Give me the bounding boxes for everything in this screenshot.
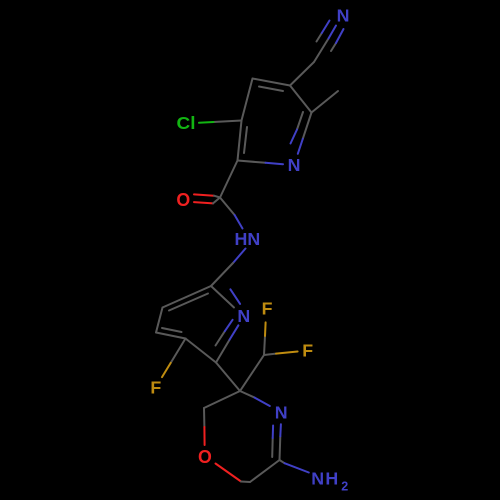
bond CHF2-F (right) (264, 354, 276, 355)
bond C2'=C3' double (ring B) (163, 286, 212, 308)
bond C2ox-C3ox (250, 460, 280, 482)
bond C5ox-N4ox (240, 391, 255, 398)
bond N(amide)-C2' (to ring B) (233, 249, 246, 264)
bond C5-C6 (ring A) (290, 86, 312, 113)
bond C5'-F (aromatic fluorine) (171, 339, 186, 363)
second line of C2'=N1' (230, 289, 240, 304)
nitrile C7#N8 triple bond (314, 39, 329, 63)
bond C6=N1 double (ring A) (303, 113, 312, 139)
bond C3-C4 (ring A) (242, 79, 253, 121)
bond O1ox-C2ox (216, 464, 242, 482)
svg-text:HN: HN (235, 229, 261, 249)
bond C2-N1 (ring A) (238, 161, 266, 163)
bond C2-C(carbonyl) (220, 161, 238, 198)
bond C6'-C5ox (ring B to oxazine quaternary C) (216, 363, 240, 392)
bond C3-Cl (214, 121, 242, 123)
bond C5-C7 (to nitrile carbon) (290, 62, 314, 86)
bond C6-CH3 methyl (312, 91, 339, 113)
svg-text:F: F (150, 377, 161, 397)
bond CHF2-F (upper) (264, 336, 265, 355)
bond C3ox=N4ox amidine double (279, 436, 282, 460)
svg-text:N: N (288, 155, 301, 175)
bond C2'-N1' (ring B) (211, 286, 234, 308)
bond C(carbonyl)-N(amide) (220, 198, 235, 216)
svg-text:N: N (275, 402, 288, 422)
bond C5ox-C6ox (204, 391, 240, 408)
svg-text:N: N (337, 6, 350, 26)
bond C6'=N1' double (ring B) (216, 340, 230, 363)
bond C3'-C4' (ring B) (156, 308, 163, 333)
svg-text:O: O (176, 189, 190, 210)
bond C5ox-CHF2 (240, 355, 264, 391)
bond C4'=C5' double (ring B) (156, 333, 186, 339)
svg-text:O: O (198, 446, 212, 467)
bond C4=C5 double (ring A) (253, 79, 291, 86)
bond C2=C3 double (ring A) (238, 121, 242, 161)
bond C5'-C6' (ring B) (186, 339, 217, 363)
svg-text:N: N (237, 306, 250, 326)
svg-text:F: F (262, 299, 273, 319)
bond C6ox-O1ox (203, 408, 205, 427)
svg-text:Cl: Cl (177, 113, 196, 133)
svg-text:F: F (302, 341, 313, 361)
carbonyl C=O double bond (194, 194, 214, 195)
bond C3ox-NH2 (280, 460, 285, 463)
